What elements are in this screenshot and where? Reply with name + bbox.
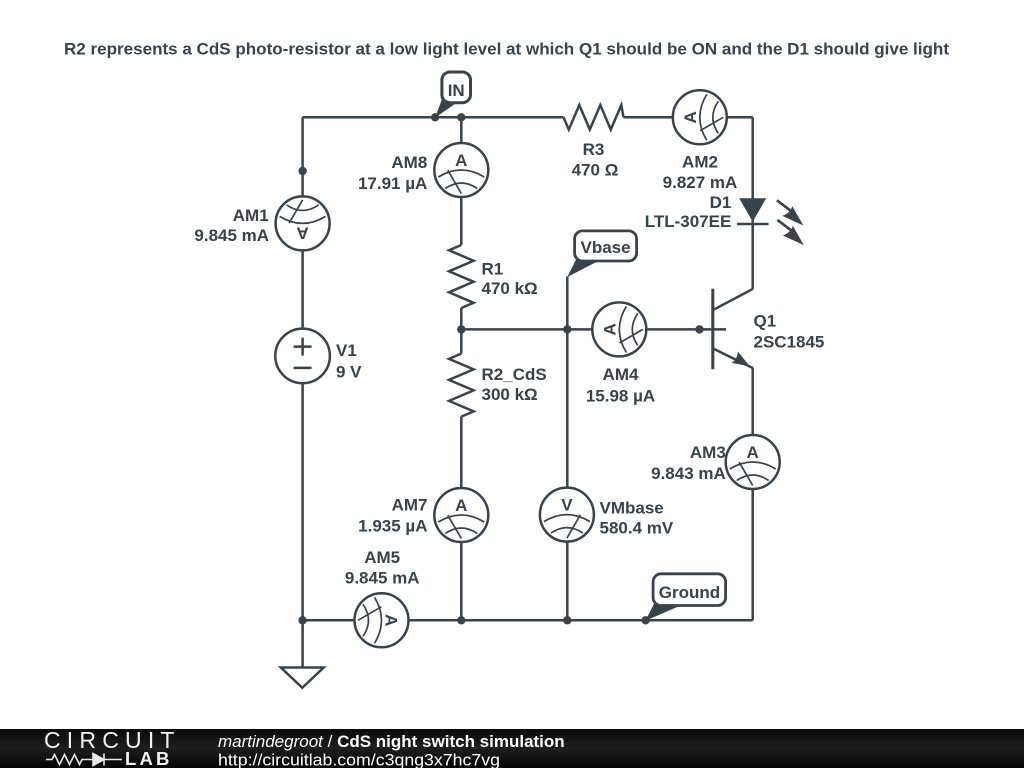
voltmeter VMbase bbox=[540, 488, 594, 542]
svg-text:D1: D1 bbox=[710, 193, 732, 212]
svg-text:Ground: Ground bbox=[659, 583, 720, 602]
svg-text:300 kΩ: 300 kΩ bbox=[482, 385, 538, 404]
wire middle branch lower bbox=[460, 417, 463, 621]
wire right branch upper bbox=[751, 117, 754, 289]
wire vbase branch bbox=[566, 277, 569, 621]
junction Vbase branch / base wire bbox=[563, 325, 571, 333]
node Vbase flag bbox=[567, 231, 636, 277]
diode D1 LED bbox=[737, 198, 804, 245]
svg-text:2SC1845: 2SC1845 bbox=[754, 332, 825, 351]
svg-text:AM7: AM7 bbox=[392, 496, 428, 515]
ammeter AM5 bbox=[355, 593, 409, 647]
wire middle branch between resistors bbox=[460, 308, 463, 354]
svg-text:AM3: AM3 bbox=[690, 443, 726, 462]
svg-text:LAB: LAB bbox=[125, 748, 173, 768]
wire left branch bbox=[301, 117, 304, 667]
svg-text:15.98 µA: 15.98 µA bbox=[586, 386, 655, 405]
wire right branch lower bbox=[751, 368, 754, 621]
ammeter AM4 bbox=[592, 302, 646, 356]
junction bottom wire / VMbase branch bbox=[563, 616, 571, 624]
junction left branch wire segments bbox=[298, 167, 306, 175]
wire base row bbox=[461, 328, 726, 331]
ammeter AM1 bbox=[276, 196, 330, 250]
node Ground flag bbox=[646, 574, 726, 621]
svg-text:Q1: Q1 bbox=[754, 311, 777, 330]
resistor R3 bbox=[564, 105, 624, 130]
ammeter AM8 bbox=[434, 143, 488, 197]
ammeter AM3 bbox=[726, 435, 780, 489]
svg-text:VMbase: VMbase bbox=[600, 498, 664, 517]
svg-text:R1: R1 bbox=[482, 259, 504, 278]
svg-text:AM2: AM2 bbox=[682, 153, 718, 172]
svg-text:R3: R3 bbox=[583, 140, 605, 159]
footer bar bbox=[0, 0, 1, 1]
voltage source V1 bbox=[275, 329, 330, 384]
svg-text:470 kΩ: 470 kΩ bbox=[482, 279, 538, 298]
svg-text:IN: IN bbox=[448, 81, 465, 100]
junction R1/R2 node to base wire bbox=[457, 325, 465, 333]
junction bottom wire / left branch bbox=[298, 616, 306, 624]
footer logo squiggle bbox=[46, 754, 122, 766]
svg-text:Vbase: Vbase bbox=[581, 238, 631, 257]
svg-text:martindegroot / CdS night swit: martindegroot / CdS night switch simulat… bbox=[218, 732, 565, 751]
junction bottom wire / middle branch bbox=[457, 616, 465, 624]
resistor R2_CdS bbox=[449, 354, 474, 417]
svg-text:580.4 mV: 580.4 mV bbox=[600, 519, 674, 538]
svg-text:9.845 mA: 9.845 mA bbox=[345, 569, 420, 588]
svg-text:LTL-307EE: LTL-307EE bbox=[645, 212, 732, 231]
junction IN net at top wire bbox=[431, 113, 439, 121]
svg-text:R2_CdS: R2_CdS bbox=[482, 365, 547, 384]
wire top right of R3 bbox=[624, 116, 753, 119]
node IN flag bbox=[435, 72, 470, 118]
svg-text:V1: V1 bbox=[336, 341, 357, 360]
ground bbox=[281, 668, 324, 688]
wire top horizontal bbox=[303, 116, 564, 119]
wire bottom horizontal bbox=[303, 619, 753, 622]
resistor R1 bbox=[449, 245, 474, 308]
ammeter AM7 bbox=[434, 488, 488, 542]
svg-text:AM1: AM1 bbox=[233, 206, 269, 225]
svg-text:AM5: AM5 bbox=[364, 548, 400, 567]
svg-text:R2 represents a CdS photo-resi: R2 represents a CdS photo-resistor at a … bbox=[64, 40, 949, 59]
transistor Q1 bbox=[713, 289, 753, 369]
svg-text:9 V: 9 V bbox=[336, 362, 362, 381]
junction base wire at Q1 base bbox=[695, 325, 703, 333]
svg-text:http://circuitlab.com/c3qng3x7: http://circuitlab.com/c3qng3x7hc7vg bbox=[218, 751, 500, 768]
svg-text:AM8: AM8 bbox=[391, 153, 427, 172]
junction Ground net at bottom wire bbox=[641, 616, 649, 624]
svg-text:AM4: AM4 bbox=[603, 365, 639, 384]
svg-text:1.935 µA: 1.935 µA bbox=[358, 517, 427, 536]
svg-text:9.843 mA: 9.843 mA bbox=[651, 464, 726, 483]
svg-text:9.827 mA: 9.827 mA bbox=[663, 173, 738, 192]
junction top wire / middle branch bbox=[457, 113, 465, 121]
svg-text:9.845 mA: 9.845 mA bbox=[194, 226, 269, 245]
svg-text:470 Ω: 470 Ω bbox=[572, 160, 619, 179]
svg-text:17.91 µA: 17.91 µA bbox=[358, 174, 427, 193]
wire middle branch upper bbox=[460, 117, 463, 245]
ammeter AM2 bbox=[673, 90, 727, 144]
